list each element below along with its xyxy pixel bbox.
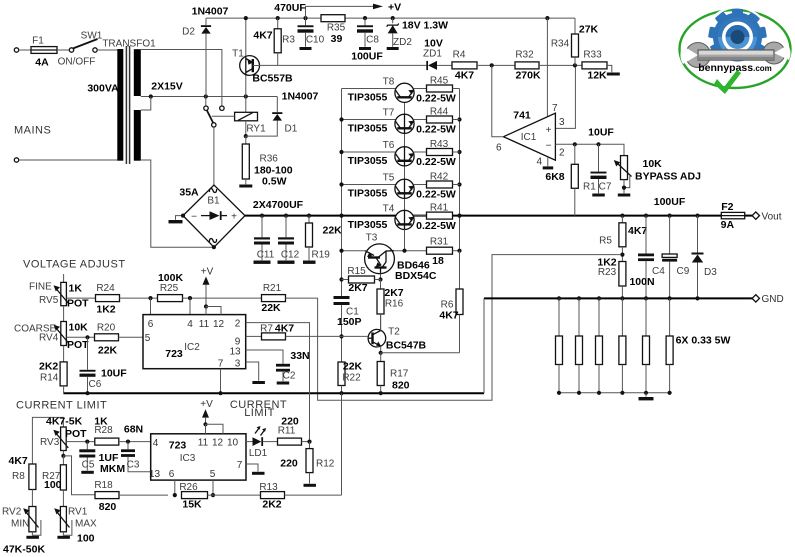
- ground at bridge minus: [169, 216, 184, 224]
- node C3 top: [126, 440, 130, 444]
- svg-text:MAINS: MAINS: [14, 125, 51, 137]
- svg-text:TRANSFO1: TRANSFO1: [102, 39, 156, 50]
- svg-text:4K7: 4K7: [628, 225, 647, 237]
- svg-text:4: 4: [153, 438, 159, 449]
- node T5 right: [457, 182, 461, 186]
- node T7 right: [457, 117, 461, 121]
- svg-text:47K-50K: 47K-50K: [3, 544, 45, 556]
- base chain wire: [404, 98, 406, 251]
- node T3 base bus: [339, 249, 343, 253]
- svg-text:+V: +V: [200, 399, 213, 410]
- node rail pin7: [218, 391, 222, 395]
- svg-text:T1: T1: [232, 49, 244, 60]
- svg-text:D3: D3: [704, 267, 717, 278]
- zener ZD2: [387, 18, 399, 50]
- svg-text:TIP3055: TIP3055: [348, 219, 388, 231]
- svg-text:27K: 27K: [579, 24, 599, 36]
- +V arrow IC3: [202, 409, 223, 434]
- svg-text:741: 741: [513, 110, 531, 122]
- svg-text:723: 723: [169, 440, 187, 452]
- resistor R3: [274, 18, 281, 65]
- common rail (bottom): [63, 392, 484, 394]
- wire fuse to SW1: [57, 49, 69, 51]
- svg-text:IC2: IC2: [184, 342, 200, 353]
- capacitor C12: [278, 216, 295, 264]
- wire T2 emitter: [380, 346, 382, 353]
- svg-text:5: 5: [210, 469, 216, 480]
- resistor R42: [427, 181, 460, 188]
- node R3 top: [276, 16, 280, 20]
- svg-text:R43: R43: [430, 139, 449, 150]
- svg-text:CURRENT LIMIT: CURRENT LIMIT: [16, 400, 107, 412]
- svg-text:12K: 12K: [587, 70, 607, 82]
- node base chain / T3 row: [402, 249, 406, 253]
- svg-text:C6: C6: [89, 379, 102, 390]
- wire stub to throw terminal left: [205, 97, 207, 107]
- svg-text:22K: 22K: [98, 345, 118, 357]
- svg-text:RV5: RV5: [39, 295, 59, 306]
- node C4 top: [644, 214, 648, 218]
- wire op-amp pin3: [555, 68, 575, 129]
- right emitter bus: [459, 89, 461, 290]
- wire +V tap arrow: [306, 4, 384, 19]
- svg-text:7: 7: [552, 103, 558, 114]
- svg-text:T4: T4: [383, 204, 395, 215]
- capacitor C3: [121, 442, 151, 472]
- svg-text:11: 11: [199, 319, 210, 330]
- svg-text:R36: R36: [260, 154, 279, 165]
- svg-text:POT: POT: [65, 428, 87, 440]
- node R31 right: [457, 249, 461, 253]
- svg-text:TIP3055: TIP3055: [348, 155, 388, 167]
- svg-text:R34: R34: [551, 39, 570, 50]
- ballast resistor bank 0.33 ohm x6: [556, 296, 674, 400]
- resistor R6: [456, 289, 463, 353]
- svg-text:2K7: 2K7: [348, 282, 367, 294]
- svg-text:R16: R16: [385, 299, 404, 310]
- svg-text:R14: R14: [40, 373, 59, 384]
- svg-text:15K: 15K: [182, 499, 202, 511]
- svg-text:R17: R17: [390, 369, 409, 380]
- wire contact common to bridge top: [213, 127, 215, 185]
- IC2 box 723: [143, 315, 246, 369]
- node R32/R33/R34 junction: [573, 63, 577, 67]
- svg-text:T6: T6: [383, 140, 395, 151]
- svg-text:B1: B1: [207, 196, 220, 207]
- svg-text:4: 4: [187, 319, 193, 330]
- resistor R23: [619, 262, 626, 299]
- node C8 top: [363, 16, 367, 20]
- svg-text:4K7: 4K7: [253, 30, 272, 42]
- svg-text:T8: T8: [383, 77, 395, 88]
- resistor R25: [158, 295, 262, 302]
- svg-text:22K: 22K: [261, 302, 281, 314]
- relay contact throw terminal left: [204, 106, 208, 110]
- node rail R17: [379, 391, 383, 395]
- svg-text:C5: C5: [82, 460, 95, 471]
- svg-text:100UF: 100UF: [351, 51, 383, 63]
- svg-text:RV4: RV4: [39, 333, 59, 344]
- svg-text:ZD2: ZD2: [393, 37, 412, 48]
- capacitor C11: [254, 216, 271, 264]
- wire op-amp pin6 output: [492, 65, 504, 136]
- svg-text:0.22-5W: 0.22-5W: [416, 124, 456, 136]
- zener ZD1: [426, 61, 452, 70]
- node C10 / +V tap: [303, 16, 307, 20]
- capacitor C5: [79, 442, 95, 474]
- svg-text:723: 723: [165, 348, 183, 360]
- svg-text:R23: R23: [598, 267, 617, 278]
- svg-text:BC547B: BC547B: [386, 339, 427, 351]
- svg-text:LIMIT: LIMIT: [244, 407, 275, 419]
- svg-text:R11: R11: [278, 426, 296, 437]
- svg-text:820: 820: [99, 501, 117, 513]
- svg-text:C7: C7: [599, 182, 612, 193]
- node C5 top: [85, 440, 89, 444]
- svg-text:4K7: 4K7: [439, 310, 458, 322]
- resistor R1: [571, 144, 578, 215]
- svg-text:7: 7: [237, 460, 243, 471]
- node R24/R25 pin6: [148, 296, 152, 300]
- capacitor C9: [662, 216, 677, 299]
- resistor R7: [246, 333, 368, 340]
- resistor R4: [452, 62, 515, 69]
- svg-text:9A: 9A: [721, 219, 735, 231]
- transformer TRANSFO1: [117, 46, 141, 164]
- capacitor C1: [334, 296, 350, 305]
- svg-text:+V: +V: [201, 267, 214, 278]
- node op-amp pin7 on rail: [545, 16, 549, 20]
- svg-text:R19: R19: [312, 250, 331, 261]
- relay contact throw terminal right: [220, 106, 224, 110]
- wire T2 collector: [380, 314, 382, 331]
- svg-text:100: 100: [44, 479, 62, 491]
- svg-text:2X15V: 2X15V: [151, 81, 183, 93]
- resistor R17: [377, 353, 384, 393]
- resistor R20: [95, 334, 144, 341]
- wire RV3 wiper row: [66, 441, 95, 443]
- node bus R15: [339, 277, 343, 281]
- svg-text:POT: POT: [67, 297, 89, 309]
- svg-text:2K7: 2K7: [384, 287, 403, 299]
- svg-text:D2: D2: [182, 27, 195, 38]
- svg-text:100N: 100N: [629, 276, 654, 288]
- svg-text:6: 6: [169, 469, 175, 480]
- svg-text:VOLTAGE ADJUST: VOLTAGE ADJUST: [23, 259, 126, 271]
- node T6 right: [457, 150, 461, 154]
- capacitor C2: [276, 364, 290, 385]
- resistor R18: [95, 492, 168, 499]
- node GND C9: [668, 296, 672, 300]
- svg-text:4K7: 4K7: [275, 323, 294, 335]
- wire mains top to fuse: [19, 49, 31, 51]
- svg-text:0.22-5W: 0.22-5W: [416, 93, 456, 105]
- svg-text:0.22-5W: 0.22-5W: [416, 189, 456, 201]
- svg-text:10K: 10K: [643, 158, 663, 170]
- node rail C6: [85, 391, 89, 395]
- node R19 top: [307, 214, 311, 218]
- resistor R27: [60, 456, 66, 507]
- GND terminal: [752, 295, 759, 302]
- svg-text:+: +: [231, 212, 237, 223]
- op-amp IC1 741: [504, 113, 556, 160]
- wire IC3 pin6: [174, 480, 176, 495]
- svg-text:22K: 22K: [343, 361, 363, 373]
- svg-text:2: 2: [559, 148, 565, 159]
- Vout terminal: [752, 212, 759, 219]
- node T2 emitter: [379, 351, 383, 355]
- svg-text:220: 220: [280, 458, 298, 470]
- wire RV3 bottom to R18: [63, 456, 95, 495]
- wire RV4 wiper row: [66, 336, 94, 338]
- node T7 left: [339, 117, 343, 121]
- potentiometer 10K bypass adj: [614, 156, 632, 197]
- node rail R22: [339, 391, 343, 395]
- node C12 top: [284, 214, 288, 218]
- relay contact lever: [207, 110, 216, 127]
- svg-text:R31: R31: [430, 237, 449, 248]
- node center tap: [149, 94, 153, 98]
- svg-text:RY1: RY1: [246, 124, 266, 135]
- resistor R31: [427, 247, 460, 254]
- diode D3: [692, 216, 704, 299]
- resistor R41: [427, 212, 453, 219]
- svg-text:R33: R33: [583, 50, 602, 61]
- svg-text:SW1: SW1: [81, 31, 103, 42]
- node T3 emitter: [378, 277, 382, 281]
- wire base chain to T4: [404, 230, 406, 251]
- potentiometer RV1: [54, 507, 72, 539]
- wire IC3 pin5: [212, 480, 214, 495]
- svg-text:3: 3: [235, 358, 241, 369]
- resistor R21: [262, 295, 318, 302]
- node rail pin6: [173, 493, 177, 497]
- wire RV3 top to R8: [32, 417, 63, 464]
- transistor T4: [395, 210, 427, 229]
- svg-text:68N: 68N: [124, 424, 143, 436]
- svg-text:1N4007: 1N4007: [192, 6, 229, 18]
- resistor R12: [304, 442, 317, 487]
- svg-text:IC3: IC3: [180, 453, 196, 464]
- resistor R33: [582, 62, 620, 76]
- transistor T1: [240, 20, 260, 97]
- node C9 top: [668, 214, 672, 218]
- wire IC2 pin7: [220, 369, 222, 394]
- capacitor C7: [591, 144, 607, 196]
- wire bus to R6: [459, 251, 461, 289]
- svg-text:1K: 1K: [69, 283, 83, 295]
- resistor R26: [182, 492, 261, 499]
- resistor R16: [377, 280, 384, 331]
- svg-text:RV3: RV3: [40, 437, 60, 448]
- wire mains bottom to primary: [19, 159, 118, 161]
- svg-text:F1: F1: [32, 36, 44, 47]
- node bridge minus: [181, 214, 185, 218]
- resistor R43: [427, 149, 460, 156]
- wire pin6 drop: [150, 298, 152, 315]
- svg-text:4K7-5K: 4K7-5K: [46, 416, 83, 428]
- svg-text:R20: R20: [97, 323, 116, 334]
- transistor T5: [342, 179, 427, 198]
- transistor T8: [342, 83, 427, 102]
- svg-text:−: −: [191, 212, 197, 223]
- svg-text:+: +: [546, 125, 552, 136]
- +V arrow IC2: [203, 277, 222, 315]
- svg-text:D1: D1: [285, 124, 298, 135]
- op-amp pin4 ground: [543, 157, 554, 169]
- svg-text:ZD1: ZD1: [423, 49, 442, 60]
- wire sense line to op-amp area: [318, 255, 621, 401]
- wire SW1 to transformer primary: [97, 49, 117, 51]
- svg-text:300VA: 300VA: [87, 83, 119, 95]
- top rail: [206, 17, 575, 19]
- wire secondary top tap: [141, 50, 222, 106]
- svg-text:10: 10: [227, 437, 239, 448]
- diode D1: [272, 97, 282, 121]
- svg-text:R4: R4: [453, 50, 466, 61]
- potentiometer RV5: [54, 274, 69, 322]
- wire emitter to R6: [381, 352, 460, 354]
- node T2 base on bus: [339, 334, 343, 338]
- wire op-amp pin2 row: [555, 144, 624, 155]
- wire IC2 pin13 to C2: [246, 350, 283, 364]
- svg-text:TIP3055: TIP3055: [348, 188, 388, 200]
- svg-text:100: 100: [77, 533, 95, 545]
- svg-text:T7: T7: [383, 108, 395, 119]
- node relay bottom: [244, 134, 248, 138]
- svg-text:C10: C10: [306, 35, 325, 46]
- main output rail: [245, 215, 753, 217]
- resistor R45: [427, 85, 460, 92]
- switch SW1: [69, 39, 97, 52]
- resistor R44: [427, 116, 460, 123]
- svg-text:F2: F2: [721, 201, 733, 213]
- svg-text:+V: +V: [388, 2, 401, 14]
- svg-text:MAX: MAX: [75, 519, 97, 530]
- svg-text:BDX54C: BDX54C: [395, 270, 437, 282]
- svg-text:R41: R41: [430, 203, 449, 214]
- svg-text:BYPASS ADJ: BYPASS ADJ: [635, 171, 701, 183]
- svg-text:10K: 10K: [69, 322, 89, 334]
- svg-text:R15: R15: [347, 266, 366, 277]
- svg-text:IC1: IC1: [521, 132, 537, 143]
- svg-text:−: −: [546, 140, 552, 151]
- svg-text:5: 5: [145, 333, 151, 344]
- svg-text:18V 1.3W: 18V 1.3W: [402, 20, 448, 32]
- potentiometer RV2: [23, 507, 41, 539]
- svg-text:T5: T5: [383, 173, 395, 184]
- svg-text:TIP3055: TIP3055: [348, 92, 388, 104]
- capacitor C10: [298, 18, 314, 50]
- node C6 top: [85, 335, 89, 339]
- svg-text:R42: R42: [430, 172, 449, 183]
- svg-text:13: 13: [229, 347, 241, 358]
- svg-text:820: 820: [392, 380, 410, 392]
- svg-text:R21: R21: [263, 283, 282, 294]
- resistor R8: [29, 464, 36, 507]
- svg-text:10UF: 10UF: [588, 127, 614, 139]
- svg-text:13: 13: [149, 469, 161, 480]
- mains terminal bottom: [14, 158, 18, 162]
- svg-text:0.22-5W: 0.22-5W: [416, 156, 456, 168]
- svg-text:R25: R25: [160, 283, 179, 294]
- IC3 pin7 ground: [246, 464, 265, 475]
- svg-text:39: 39: [331, 33, 343, 45]
- svg-text:12: 12: [213, 319, 225, 330]
- capacitor C4: [638, 216, 654, 299]
- wire secondary center tap: [141, 96, 277, 98]
- svg-text:1N4007: 1N4007: [282, 91, 319, 103]
- svg-text:LD1: LD1: [249, 448, 268, 459]
- resistor R11: [278, 438, 310, 445]
- svg-text:FINE: FINE: [29, 282, 52, 293]
- node R4/R32 junction: [490, 63, 494, 67]
- wire center tap down to bridge: [141, 97, 214, 248]
- svg-text:T3: T3: [366, 233, 378, 244]
- node RV3 bottom / R27: [61, 454, 65, 458]
- logo bennypass.com: [680, 7, 791, 94]
- svg-text:C11: C11: [257, 250, 275, 261]
- svg-text:4K7: 4K7: [455, 70, 474, 82]
- wire op-amp pin7: [546, 18, 548, 117]
- svg-text:6X 0.33 5W: 6X 0.33 5W: [676, 335, 731, 347]
- resistor R5: [619, 216, 626, 262]
- resistor R32: [515, 62, 582, 69]
- svg-text:POT: POT: [67, 339, 89, 351]
- node D3 top: [695, 214, 699, 218]
- node T4 left rail: [339, 214, 343, 218]
- node ZD2 top: [391, 16, 395, 20]
- svg-text:1K2: 1K2: [96, 304, 115, 316]
- svg-text:RV1: RV1: [68, 507, 88, 518]
- svg-text:C9: C9: [677, 266, 690, 277]
- transistor T6: [342, 147, 427, 166]
- node T6 left: [339, 150, 343, 154]
- svg-text:R8: R8: [12, 471, 25, 482]
- svg-text:R13: R13: [259, 482, 278, 493]
- left collector bus: [341, 89, 343, 394]
- svg-text:18: 18: [432, 255, 444, 267]
- svg-text:R18: R18: [94, 480, 113, 491]
- svg-text:MIN: MIN: [11, 519, 29, 530]
- node bridge bottom: [212, 245, 216, 249]
- svg-text:R12: R12: [316, 459, 335, 470]
- svg-text:6: 6: [148, 319, 154, 330]
- resistor R36: [239, 136, 252, 187]
- wire relay bottom to D1: [246, 120, 277, 136]
- node D2 junction: [204, 94, 208, 98]
- wire T3 emitter: [380, 274, 382, 280]
- svg-text:MKM: MKM: [100, 463, 125, 475]
- transistor T7: [342, 114, 427, 133]
- node GND C4: [644, 296, 648, 300]
- wire rail up to GND line: [483, 298, 485, 393]
- svg-text:2K2: 2K2: [39, 361, 58, 373]
- svg-text:270K: 270K: [515, 70, 541, 82]
- node R1 top: [573, 142, 577, 146]
- potentiometer RV3: [53, 427, 68, 456]
- wire IC2 pin2: [246, 323, 310, 440]
- svg-text:BC557B: BC557B: [252, 73, 293, 85]
- svg-text:150P: 150P: [337, 316, 362, 328]
- svg-text:0.5W: 0.5W: [262, 176, 287, 188]
- svg-text:11: 11: [198, 437, 209, 448]
- svg-text:GND: GND: [762, 294, 784, 305]
- wire pin4 drop: [189, 298, 191, 315]
- svg-text:4: 4: [537, 157, 543, 168]
- IC3 box 723: [151, 434, 246, 480]
- svg-text:TIP3055: TIP3055: [348, 123, 388, 135]
